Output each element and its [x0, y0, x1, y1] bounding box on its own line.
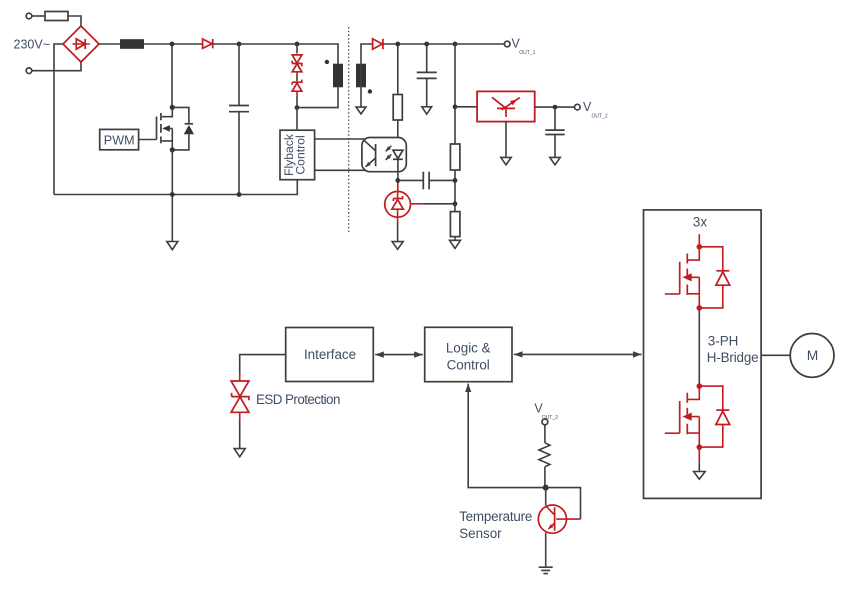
- terminal VOUT1: [504, 37, 535, 56]
- wire: [144, 43, 203, 45]
- reference U4 (shunt reference): [385, 191, 411, 217]
- node junction source: [170, 147, 175, 152]
- svg-text:3x: 3x: [693, 214, 707, 229]
- svg-text:V: V: [534, 401, 543, 415]
- node junction: [453, 178, 458, 183]
- wire flyback bottom rail: [54, 180, 297, 195]
- svg-text:PWM: PWM: [104, 133, 135, 147]
- wire: [32, 15, 45, 17]
- node junction: [453, 201, 458, 206]
- diode Z2 (zener): [292, 75, 302, 108]
- bridge rectifier BR1: [63, 26, 99, 62]
- diode D3: [373, 39, 383, 49]
- terminal AC input bottom: [26, 68, 32, 74]
- terminal AC input top: [26, 13, 32, 19]
- capacitor C3: [545, 107, 564, 157]
- terminal VOUT2 sense: [534, 401, 558, 424]
- wire to motor: [761, 354, 790, 356]
- wire arrow logic-hbridge: [514, 353, 642, 355]
- node junction: [295, 105, 300, 110]
- transistor Q3 high-side MOSFET: [665, 234, 702, 311]
- wire source to rail: [171, 150, 173, 242]
- node junction drain: [170, 105, 175, 110]
- wire: [99, 43, 120, 45]
- wire interface to ESD: [240, 355, 286, 375]
- optocoupler U3: [362, 138, 406, 172]
- wire phase node: [698, 311, 700, 384]
- diode D2 (body diode): [172, 107, 194, 149]
- capacitor C4: [398, 172, 455, 190]
- H-bridge box: [644, 210, 762, 499]
- resistor R1: [393, 44, 402, 150]
- node junction rail: [237, 192, 242, 197]
- node junction sense: [543, 485, 549, 491]
- svg-text:230V~: 230V~: [14, 37, 51, 51]
- wire: [544, 425, 546, 443]
- resistor R4 (zigzag): [539, 443, 550, 467]
- svg-text:Logic &: Logic &: [446, 341, 491, 356]
- node junction rail: [170, 192, 175, 197]
- wire output rail: [383, 43, 505, 45]
- svg-text:V: V: [583, 100, 592, 114]
- PWM box: [100, 129, 139, 149]
- wire arrow interface-logic: [375, 354, 423, 356]
- diode D5 (body diode low side): [699, 386, 729, 447]
- wire opto feedback top: [315, 138, 369, 140]
- TVS Z3 ESD protection: [231, 374, 249, 420]
- ground C3: [550, 157, 560, 164]
- wire regulator output: [535, 106, 575, 108]
- fuse F1: [45, 12, 68, 21]
- Flyback Control box U1: [280, 130, 315, 180]
- svg-text:Interface: Interface: [304, 347, 356, 362]
- TVS Z1 (snubber bidirectional): [292, 44, 302, 75]
- svg-text:Control: Control: [294, 135, 308, 174]
- ground temperature sensor (earth): [539, 533, 553, 574]
- node junction: [453, 104, 458, 109]
- node junction: [237, 42, 242, 47]
- ground primary: [167, 242, 178, 250]
- node junction: [395, 42, 400, 47]
- wire gate: [139, 139, 157, 141]
- wire: [54, 44, 63, 195]
- node junction: [553, 105, 558, 110]
- ground H-bridge: [694, 447, 706, 479]
- resistor R3: [450, 212, 460, 237]
- wire reference right: [411, 203, 456, 205]
- wire red to reference: [397, 183, 399, 192]
- regulator U2 (shunt regulator): [477, 91, 535, 121]
- wire flyback top: [296, 108, 298, 130]
- svg-text:V: V: [512, 37, 521, 51]
- wire base feedback loop: [546, 488, 581, 519]
- svg-text:Temperature: Temperature: [459, 509, 532, 524]
- diode D1: [203, 39, 213, 48]
- wire LED cathode: [397, 159, 399, 183]
- terminal VOUT2: [575, 100, 608, 120]
- svg-text:OUT_1: OUT_1: [519, 50, 535, 56]
- label Temperature Sensor: [459, 509, 532, 541]
- ground secondary: [356, 87, 366, 114]
- svg-text:3-PH: 3-PH: [708, 333, 739, 348]
- wire: [32, 62, 81, 71]
- Interface box: [286, 328, 374, 382]
- ground C2: [422, 107, 432, 114]
- wire divider: [454, 44, 456, 240]
- capacitor C2: [417, 44, 437, 107]
- svg-text:Sensor: Sensor: [459, 526, 502, 541]
- wire: [544, 467, 546, 488]
- wire drain: [171, 44, 173, 107]
- node junction: [453, 42, 458, 47]
- transistor Q1 MOSFET: [157, 107, 173, 149]
- ground reference: [392, 217, 403, 249]
- svg-text:H-Bridge: H-Bridge: [707, 350, 759, 365]
- inductor L1 (ferrite bead): [120, 39, 144, 49]
- wire: [68, 16, 81, 26]
- svg-text:OUT_2: OUT_2: [592, 113, 608, 119]
- ground regulator: [501, 122, 511, 165]
- label 3-PH H-Bridge: [707, 333, 759, 365]
- ground R3: [450, 240, 461, 248]
- wire primary bottom: [297, 87, 338, 107]
- svg-text:ESD Protection: ESD Protection: [256, 392, 340, 407]
- transistor Q2 temperature sensor: [538, 488, 566, 534]
- diode D4 (body diode high side): [699, 247, 729, 308]
- transformer T1 primary: [325, 60, 343, 88]
- node junction: [295, 42, 300, 47]
- wire to regulator: [455, 106, 477, 108]
- node junction: [170, 42, 175, 47]
- motor M1: [790, 334, 834, 378]
- transformer T1 secondary: [356, 64, 372, 94]
- ground ESD: [234, 420, 245, 456]
- svg-text:Control: Control: [447, 358, 490, 373]
- transistor Q4 low-side MOSFET: [665, 383, 702, 450]
- node junction: [395, 178, 400, 183]
- wire opto feedback bottom: [315, 169, 367, 171]
- node junction: [424, 42, 429, 47]
- isolation barrier (dashed): [348, 27, 350, 232]
- wire: [213, 44, 338, 64]
- capacitor C1: [229, 44, 249, 195]
- wire secondary top: [361, 44, 373, 87]
- resistor R2: [450, 144, 460, 170]
- svg-text:M: M: [807, 348, 819, 363]
- Logic & Control box: [425, 327, 512, 381]
- wire temp feedback to logic: [468, 384, 546, 488]
